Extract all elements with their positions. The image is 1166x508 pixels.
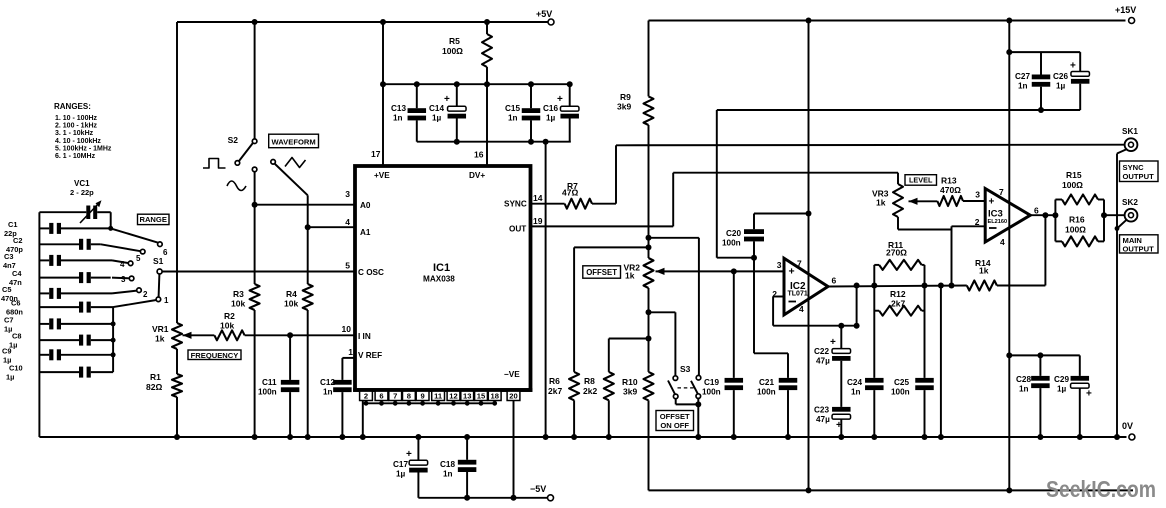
svg-text:V REF: V REF xyxy=(358,351,382,360)
svg-text:SK1: SK1 xyxy=(1122,127,1138,136)
svg-text:+VE: +VE xyxy=(374,171,390,180)
svg-text:C18: C18 xyxy=(440,460,455,469)
svg-text:1k: 1k xyxy=(625,271,635,281)
svg-text:6: 6 xyxy=(832,276,837,286)
svg-text:+: + xyxy=(406,449,412,460)
svg-text:6. 1 - 10MHz: 6. 1 - 10MHz xyxy=(55,153,96,160)
svg-text:MAX038: MAX038 xyxy=(423,275,455,284)
svg-text:2k7: 2k7 xyxy=(891,299,905,309)
svg-text:100Ω: 100Ω xyxy=(1062,180,1083,190)
svg-text:47µ: 47µ xyxy=(816,357,830,366)
svg-text:A1: A1 xyxy=(360,228,371,237)
svg-text:C2: C2 xyxy=(13,236,22,245)
svg-text:1µ: 1µ xyxy=(546,114,556,123)
svg-text:6: 6 xyxy=(1034,206,1039,216)
svg-text:OUTPUT: OUTPUT xyxy=(1123,172,1155,181)
svg-text:ON OFF: ON OFF xyxy=(660,421,689,430)
svg-text:100n: 100n xyxy=(702,388,721,397)
svg-text:5: 5 xyxy=(136,254,141,263)
svg-text:R12: R12 xyxy=(890,289,906,299)
svg-text:C29: C29 xyxy=(1054,375,1069,384)
svg-text:I IN: I IN xyxy=(358,332,371,341)
svg-text:RANGES:: RANGES: xyxy=(54,102,91,111)
svg-text:+: + xyxy=(989,197,995,208)
svg-text:DV+: DV+ xyxy=(469,171,485,180)
svg-text:1k: 1k xyxy=(979,266,989,276)
svg-text:1: 1 xyxy=(348,347,353,357)
svg-text:15: 15 xyxy=(477,392,486,401)
svg-text:R15: R15 xyxy=(1066,170,1082,180)
svg-text:10: 10 xyxy=(342,324,352,334)
svg-text:R10: R10 xyxy=(622,377,638,387)
svg-text:S3: S3 xyxy=(680,364,691,374)
svg-text:C10: C10 xyxy=(9,364,23,373)
svg-text:470Ω: 470Ω xyxy=(940,185,961,195)
svg-text:3k9: 3k9 xyxy=(617,102,631,112)
svg-text:−VE: −VE xyxy=(504,370,520,379)
svg-text:7: 7 xyxy=(393,392,397,401)
svg-text:C11: C11 xyxy=(262,378,277,387)
svg-text:SeekIC.com: SeekIC.com xyxy=(1046,476,1156,502)
svg-text:R4: R4 xyxy=(286,289,297,299)
svg-text:+: + xyxy=(830,337,836,348)
svg-text:OUTPUT: OUTPUT xyxy=(1123,245,1155,254)
svg-text:+: + xyxy=(836,420,842,431)
svg-text:10k: 10k xyxy=(284,299,298,309)
svg-text:1k: 1k xyxy=(876,198,886,208)
svg-text:7: 7 xyxy=(999,187,1004,197)
svg-text:S2: S2 xyxy=(228,135,239,145)
svg-text:4. 10 - 100kHz: 4. 10 - 100kHz xyxy=(55,138,101,145)
svg-text:11: 11 xyxy=(434,392,443,401)
svg-text:WAVEFORM: WAVEFORM xyxy=(272,137,316,146)
svg-text:C OSC: C OSC xyxy=(358,268,384,277)
svg-text:1k: 1k xyxy=(155,334,165,344)
svg-text:OFFSET: OFFSET xyxy=(586,268,617,277)
svg-text:5. 100kHz - 1MHz: 5. 100kHz - 1MHz xyxy=(55,145,112,152)
svg-text:C17: C17 xyxy=(393,460,408,469)
svg-text:IC1: IC1 xyxy=(433,262,450,274)
svg-text:VR1: VR1 xyxy=(152,324,169,334)
svg-text:C27: C27 xyxy=(1015,72,1030,81)
svg-text:RANGE: RANGE xyxy=(139,215,166,224)
svg-text:C28: C28 xyxy=(1016,375,1031,384)
svg-text:+: + xyxy=(444,94,450,105)
svg-text:C14: C14 xyxy=(429,104,444,113)
svg-text:6: 6 xyxy=(163,248,168,257)
svg-text:+: + xyxy=(1086,389,1092,400)
svg-text:C20: C20 xyxy=(726,229,741,238)
svg-text:TL071: TL071 xyxy=(788,291,808,298)
svg-text:1n: 1n xyxy=(443,470,453,479)
svg-text:1: 1 xyxy=(164,296,169,305)
svg-text:100n: 100n xyxy=(258,388,277,397)
svg-text:12: 12 xyxy=(449,392,457,401)
svg-text:EL2160: EL2160 xyxy=(988,219,1008,225)
svg-text:19: 19 xyxy=(533,216,543,226)
svg-text:2: 2 xyxy=(975,217,980,227)
svg-text:FREQUENCY: FREQUENCY xyxy=(191,351,239,360)
svg-text:16: 16 xyxy=(474,150,484,160)
svg-text:4: 4 xyxy=(345,217,350,227)
svg-text:2. 100 - 1kHz: 2. 100 - 1kHz xyxy=(55,123,98,130)
svg-text:SYNC: SYNC xyxy=(504,200,527,209)
svg-text:C21: C21 xyxy=(759,378,774,387)
svg-text:100n: 100n xyxy=(891,388,910,397)
svg-text:C16: C16 xyxy=(543,104,558,113)
svg-text:−5V: −5V xyxy=(530,484,546,494)
svg-text:14: 14 xyxy=(533,193,543,203)
svg-text:3k9: 3k9 xyxy=(623,387,637,397)
svg-text:1n: 1n xyxy=(851,388,861,397)
svg-text:3: 3 xyxy=(777,260,782,270)
svg-text:R8: R8 xyxy=(584,376,595,386)
svg-text:R1: R1 xyxy=(150,372,161,382)
svg-text:C5: C5 xyxy=(2,285,11,294)
svg-text:C4: C4 xyxy=(12,269,22,278)
svg-text:9: 9 xyxy=(420,392,424,401)
svg-text:C24: C24 xyxy=(847,378,862,387)
svg-text:8: 8 xyxy=(407,392,411,401)
svg-text:3: 3 xyxy=(345,189,350,199)
svg-text:2: 2 xyxy=(364,392,368,401)
svg-text:1µ: 1µ xyxy=(432,114,442,123)
svg-text:C12: C12 xyxy=(320,378,335,387)
svg-text:4: 4 xyxy=(799,304,804,314)
svg-text:R3: R3 xyxy=(233,289,244,299)
svg-text:+5V: +5V xyxy=(536,9,552,19)
svg-text:C8: C8 xyxy=(12,332,21,341)
svg-text:1. 10 - 100Hz: 1. 10 - 100Hz xyxy=(55,115,98,122)
svg-text:R6: R6 xyxy=(549,376,560,386)
svg-text:+15V: +15V xyxy=(1115,5,1136,15)
svg-text:SYNC: SYNC xyxy=(1123,163,1145,172)
svg-text:LEVEL: LEVEL xyxy=(909,176,933,185)
svg-text:C1: C1 xyxy=(8,220,17,229)
svg-text:5: 5 xyxy=(345,261,350,271)
svg-text:C19: C19 xyxy=(704,378,719,387)
svg-text:10k: 10k xyxy=(220,321,234,331)
svg-text:3: 3 xyxy=(121,275,126,284)
svg-text:C22: C22 xyxy=(814,347,829,356)
svg-text:2 - 22p: 2 - 22p xyxy=(70,188,94,197)
svg-text:100n: 100n xyxy=(722,239,741,248)
svg-text:C15: C15 xyxy=(505,104,520,113)
svg-text:10k: 10k xyxy=(231,299,245,309)
svg-text:1µ: 1µ xyxy=(396,470,406,479)
svg-text:3. 1 - 10kHz: 3. 1 - 10kHz xyxy=(55,130,94,137)
svg-text:47Ω: 47Ω xyxy=(562,188,578,198)
svg-text:C3: C3 xyxy=(4,252,13,261)
svg-text:S1: S1 xyxy=(153,256,164,266)
svg-text:270Ω: 270Ω xyxy=(886,248,907,258)
svg-text:VC1: VC1 xyxy=(74,179,90,188)
svg-text:2k2: 2k2 xyxy=(583,386,597,396)
svg-text:C25: C25 xyxy=(894,378,909,387)
svg-text:47µ: 47µ xyxy=(816,415,830,424)
svg-text:2k7: 2k7 xyxy=(548,386,562,396)
svg-text:100n: 100n xyxy=(757,388,776,397)
svg-text:OUT: OUT xyxy=(509,225,526,234)
svg-text:17: 17 xyxy=(371,149,381,159)
svg-text:2: 2 xyxy=(143,290,148,299)
svg-text:100Ω: 100Ω xyxy=(1065,225,1086,235)
svg-text:C23: C23 xyxy=(814,406,829,415)
svg-text:+: + xyxy=(1070,61,1076,72)
svg-text:SK2: SK2 xyxy=(1122,198,1138,207)
svg-text:20: 20 xyxy=(509,392,517,401)
svg-text:100Ω: 100Ω xyxy=(442,46,463,56)
svg-text:13: 13 xyxy=(463,392,471,401)
svg-text:1µ: 1µ xyxy=(1057,385,1067,394)
svg-text:C26: C26 xyxy=(1053,72,1068,81)
svg-text:1µ: 1µ xyxy=(1056,82,1066,91)
svg-text:+: + xyxy=(789,266,795,278)
svg-text:1n: 1n xyxy=(508,114,518,123)
svg-text:C7: C7 xyxy=(4,316,13,325)
svg-text:7: 7 xyxy=(797,259,802,269)
svg-text:C13: C13 xyxy=(391,104,406,113)
svg-text:A0: A0 xyxy=(360,201,371,210)
svg-text:C6: C6 xyxy=(11,299,20,308)
svg-text:R16: R16 xyxy=(1069,215,1085,225)
svg-text:18: 18 xyxy=(490,392,498,401)
svg-text:4: 4 xyxy=(120,260,125,269)
svg-text:4: 4 xyxy=(1000,237,1005,247)
svg-text:0V: 0V xyxy=(1122,421,1133,431)
svg-text:R2: R2 xyxy=(224,311,235,321)
svg-text:R9: R9 xyxy=(620,92,631,102)
svg-text:6: 6 xyxy=(379,392,383,401)
svg-text:1µ: 1µ xyxy=(6,373,14,382)
svg-text:1n: 1n xyxy=(1019,385,1029,394)
svg-text:R5: R5 xyxy=(449,36,460,46)
svg-text:1n: 1n xyxy=(393,114,403,123)
svg-text:OFFSET: OFFSET xyxy=(660,412,690,421)
svg-text:3: 3 xyxy=(975,190,980,200)
svg-text:1n: 1n xyxy=(1018,82,1028,91)
svg-text:82Ω: 82Ω xyxy=(146,382,162,392)
svg-text:1n: 1n xyxy=(323,388,333,397)
svg-text:C9: C9 xyxy=(2,347,11,356)
